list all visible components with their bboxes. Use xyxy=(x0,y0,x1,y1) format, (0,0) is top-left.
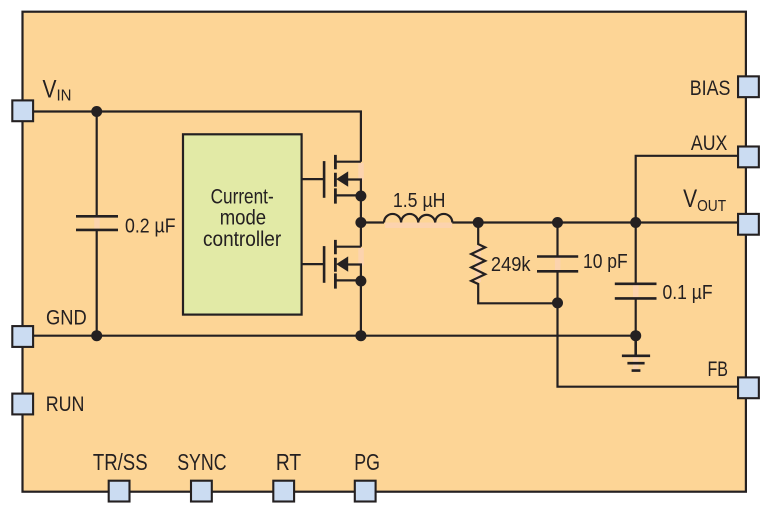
controller block U1 xyxy=(183,134,302,314)
capacitor C2 10pF lead top xyxy=(556,223,558,257)
wire GND rail xyxy=(34,335,636,337)
pin RT xyxy=(273,481,294,502)
transistor Q1 gate wire xyxy=(302,178,324,180)
transistor Q1 source stub xyxy=(335,194,361,196)
transistor Q2 source stub xyxy=(335,279,361,281)
svg-text:10 pF: 10 pF xyxy=(583,251,628,273)
svg-text:PG: PG xyxy=(354,449,380,475)
junction dot Q2 source/body xyxy=(355,276,366,287)
capacitor C2 10pF plates xyxy=(537,257,578,272)
junction dot Q1 source/body xyxy=(355,191,366,202)
svg-text:GND: GND xyxy=(46,306,87,329)
pin SYNC xyxy=(191,481,212,502)
svg-text:BIAS: BIAS xyxy=(690,77,731,100)
pink highlight: 0.1uF dielectric xyxy=(633,285,639,298)
pink highlight: inductor path xyxy=(385,223,452,229)
wire VIN rail: pin to Q1 drain corner xyxy=(34,112,361,162)
capacitor C3 0.1uF lead top xyxy=(635,223,637,285)
wire switch node to Q2 drain xyxy=(360,223,362,247)
pink highlight: ground symbol xyxy=(633,357,639,370)
svg-text:AUX: AUX xyxy=(691,132,727,155)
transistor Q1 drain stub xyxy=(335,161,361,163)
svg-text:SYNC: SYNC xyxy=(177,449,226,475)
junction dot GND/C_IN xyxy=(91,330,102,341)
resistor R1 249k xyxy=(471,223,557,304)
svg-text:RUN: RUN xyxy=(46,393,85,416)
pin VIN xyxy=(12,100,33,121)
pink highlight: 10pF dielectric xyxy=(555,258,561,271)
pink highlight: Q1 drain-source path xyxy=(358,163,364,181)
transistor Q1 channel segments xyxy=(334,155,337,204)
transistor Q2 gate wire xyxy=(302,263,324,265)
pin GND xyxy=(12,326,33,347)
wire FB feed xyxy=(558,303,739,387)
pin TR/SS xyxy=(109,481,130,502)
svg-text:FB: FB xyxy=(708,358,729,381)
inductor L1 1.5uH xyxy=(384,214,452,223)
pin FB xyxy=(738,377,759,398)
transistor Q1 gate bar xyxy=(323,161,326,198)
wire Q2 source to ground rail xyxy=(360,281,362,336)
junction dot switch node xyxy=(355,217,366,228)
wire switch node to inductor xyxy=(361,221,384,223)
junction dot R1/C2/FB node xyxy=(552,297,563,308)
transistor Q2 body arrow xyxy=(336,256,348,271)
capacitor C_IN lead top xyxy=(96,112,98,217)
wire AUX branch xyxy=(636,156,739,223)
transistor Q2 channel segments xyxy=(334,240,337,289)
pink highlight: Q2 drain-source path xyxy=(358,248,364,266)
wire VOUT rail xyxy=(452,221,738,223)
capacitor C3 0.1uF lead bottom xyxy=(635,298,637,335)
svg-text:249k: 249k xyxy=(491,254,532,276)
transistor Q1 body wire xyxy=(347,180,361,197)
capacitor C3 0.1uF plates xyxy=(615,284,657,299)
svg-text:Current-: Current- xyxy=(211,185,274,208)
junction dot VOUT/C2 xyxy=(552,217,563,228)
pin AUX xyxy=(738,147,759,168)
pink highlight: 0.2uF dielectric xyxy=(94,217,100,229)
svg-text:mode: mode xyxy=(220,207,266,230)
pin PG xyxy=(355,481,376,502)
svg-text:RT: RT xyxy=(276,449,301,475)
svg-text:1.5 µH: 1.5 µH xyxy=(393,190,446,212)
transistor Q1 body arrow xyxy=(336,171,348,186)
svg-text:controller: controller xyxy=(203,228,281,251)
capacitor C_IN lead bottom xyxy=(96,230,98,336)
pin VOUT xyxy=(738,214,759,235)
capacitor C2 10pF lead bottom xyxy=(556,271,558,303)
svg-text:0.2 µF: 0.2 µF xyxy=(125,216,176,238)
svg-text:0.1 µF: 0.1 µF xyxy=(663,282,713,304)
pin RUN xyxy=(12,394,33,415)
wire Q1 source to switch node xyxy=(360,196,362,223)
junction dot C3/ground xyxy=(630,330,641,341)
ground symbol xyxy=(622,336,650,371)
transistor Q2 drain stub xyxy=(335,246,361,248)
transistor Q2 gate bar xyxy=(323,246,326,283)
junction dot GND/Q2 source xyxy=(355,330,366,341)
junction dot VOUT/AUX/C3 xyxy=(630,217,641,228)
transistor Q2 body wire xyxy=(347,265,361,282)
capacitor C_IN plates 0.2uF xyxy=(76,216,118,230)
svg-text:TR/SS: TR/SS xyxy=(93,449,148,475)
junction dot VOUT/R1 xyxy=(473,217,484,228)
pink highlight: resistor 249k body xyxy=(476,246,482,282)
junction dot VIN/C_IN xyxy=(91,106,102,117)
pin BIAS xyxy=(738,76,759,97)
